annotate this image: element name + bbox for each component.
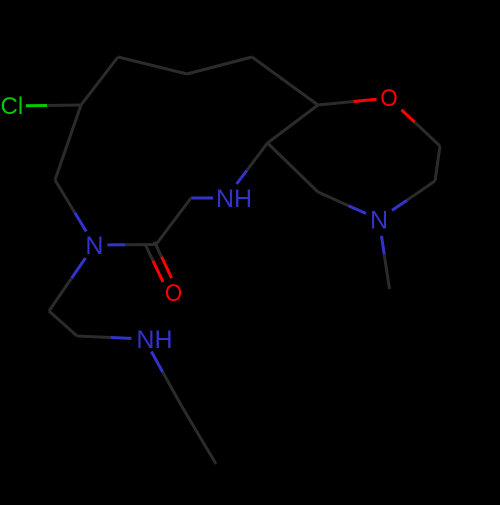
bond Cr1-Cn1 xyxy=(268,143,319,192)
bond Nl-Ca xyxy=(75,213,87,232)
svg-text:O: O xyxy=(165,280,182,307)
bond Cnb1-Nb xyxy=(77,336,111,338)
bond Ca-C1 xyxy=(55,105,81,180)
bond Cb-Cnb1 xyxy=(49,311,77,336)
svg-text:O: O xyxy=(380,85,397,112)
bond Va-Vb xyxy=(118,57,187,74)
svg-text:NH: NH xyxy=(216,185,252,213)
bond Co2-Cr2 xyxy=(435,146,440,181)
bond C1-Va xyxy=(81,57,118,105)
bond Nl-Cb xyxy=(72,258,86,278)
bond Cr2-Nr xyxy=(407,181,435,200)
bond Cn1-Co1 xyxy=(268,105,319,143)
bond Cco-Oco xyxy=(146,245,153,260)
bond Cnb2-Cnb3 xyxy=(181,405,216,464)
svg-text:NH: NH xyxy=(136,326,172,354)
bond Co1-O1 xyxy=(318,102,354,106)
bond O1-Co2 xyxy=(402,110,415,122)
svg-text:N: N xyxy=(85,232,103,260)
bond Vb-Vc xyxy=(187,57,252,74)
bond Nc-Cal xyxy=(191,197,213,200)
svg-text:N: N xyxy=(370,206,388,234)
bond Cco-Nl xyxy=(125,243,156,246)
bond Nr-Me_r xyxy=(382,236,385,254)
bond Nr-Cr1 xyxy=(349,206,367,214)
bond Cal-Cco xyxy=(156,198,191,245)
bond Vc-Co1 xyxy=(252,57,318,105)
bond Cn1-Nc xyxy=(247,143,268,171)
svg-text:Cl: Cl xyxy=(1,93,24,120)
bond Cl-C1 xyxy=(26,104,47,107)
bond Nb-Cnb2 xyxy=(151,352,162,373)
